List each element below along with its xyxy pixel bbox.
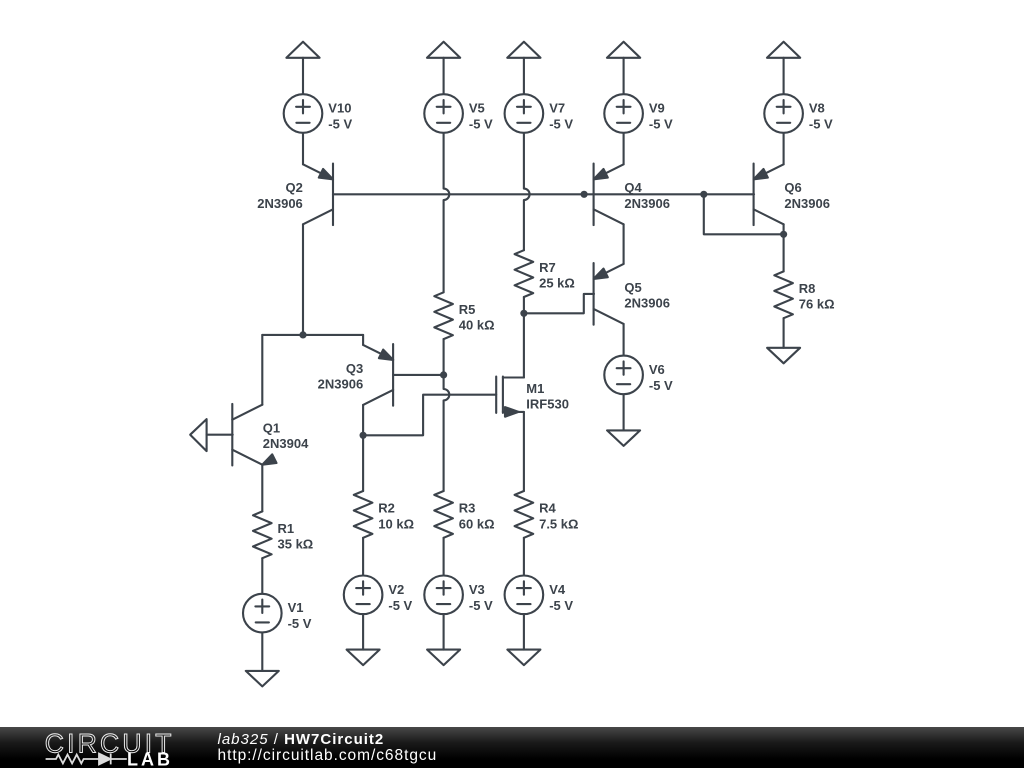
svg-text:R8: R8 [799,281,816,296]
wire Q3 collector down to R2 [362,405,364,491]
svg-text:40 kΩ: 40 kΩ [459,318,495,333]
voltage source V5 -5 V [424,94,463,133]
svg-text:-5 V: -5 V [649,117,673,132]
svg-text:10 kΩ: 10 kΩ [378,516,414,531]
footer title text [218,731,385,748]
label R8 [799,281,835,312]
transistor Q5 2N3906 [594,263,624,325]
svg-text:Q2: Q2 [285,180,302,195]
voltage source V7 -5 V [505,94,544,133]
label M1 [526,381,569,412]
svg-text:V2: V2 [388,582,404,597]
svg-text:Q5: Q5 [624,280,641,295]
svg-text:R2: R2 [378,501,395,516]
ground below R8 [767,348,800,364]
wire R5 to R3 (hop over gate wire) [444,339,450,491]
svg-text:-5 V: -5 V [469,117,493,132]
voltage source V3 -5 V [424,576,463,615]
voltage source V8 -5 V [764,94,803,133]
logo resistor + diode glyph [46,754,127,765]
node main wire at Q4 [581,191,588,198]
wire Q2 collector down [302,224,304,335]
ground below V3 [427,650,460,666]
voltage source V9 -5 V [604,94,643,133]
wire V7 down to R7 (hop over main wire) [524,133,530,250]
svg-text:IRF530: IRF530 [526,397,569,412]
label Q6 [784,180,830,211]
ground below V1 [246,671,279,687]
transistor Q3 2N3906 [363,344,393,406]
wire R to V2 [362,538,364,576]
resistor R5 40 k [434,292,453,339]
power flag above V5 [427,42,460,94]
wire V6 to ground [623,394,625,430]
transistor Q4 2N3906 [594,164,624,226]
CircuitLab logo wordmark [45,728,175,769]
wire R1 to V1 [261,558,263,593]
voltage source V6 -5 V [604,356,643,395]
wire feedback down-right to Q6 collector [704,194,784,234]
svg-text:R1: R1 [278,521,295,536]
label V1 [288,600,312,631]
ground below V4 [507,650,540,666]
svg-text:V1: V1 [288,600,304,615]
power flag above V10 [286,42,319,94]
node Q3 base junction [440,371,447,378]
svg-text:V7: V7 [549,101,565,116]
svg-text:-5 V: -5 V [469,598,493,613]
resistor R3 60 k [434,491,453,538]
svg-text:-5 V: -5 V [549,598,573,613]
resistor R7 25 k [515,250,534,297]
wire main bus Q2-Q4-Q6 bases [333,193,754,195]
wire Q6 collector down [783,224,785,271]
svg-text:V3: V3 [469,582,485,597]
svg-text:-5 V: -5 V [649,378,673,393]
wire port to Q1 base [207,434,233,436]
node gate feedback junction [360,432,367,439]
label V10 [328,101,352,132]
label Q4 [624,180,670,211]
svg-text:R5: R5 [459,302,476,317]
wire Q5 base jog [524,294,594,313]
resistor R4 7.5 k [515,491,534,538]
svg-text:V8: V8 [809,101,825,116]
voltage source V4 -5 V [505,576,544,615]
wire V1 to ground [261,633,263,671]
node Q6 collector junction [780,231,787,238]
ground below V2 [347,650,380,666]
node main wire feedback tap [700,191,707,198]
voltage source V1 -5 V [243,594,282,633]
node R7/M1/Q5 junction [520,310,527,317]
voltage source V10 -5 V [284,94,323,133]
wire Q3 emitter stub [362,335,364,345]
label R4 [539,501,578,532]
label V5 [469,101,493,132]
svg-text:25 kΩ: 25 kΩ [539,276,575,291]
label R1 [278,521,314,552]
wire R7 to M1 drain [523,297,525,378]
wire V8 to Q6 emitter [783,133,785,164]
wire V9 to Q4 emitter [623,133,625,164]
wire gate feedback to M1 [363,395,496,436]
power flag above V9 [607,42,640,94]
svg-text:R7: R7 [539,260,556,275]
label V3 [469,582,493,613]
wire horizontal Q1-Q2-Q3 [262,334,363,336]
label R2 [378,501,414,532]
wire M1 source to R4 [523,412,525,491]
power flag above V7 [507,42,540,94]
wire Q3 base [393,374,444,376]
label Q5 [624,280,670,311]
wire V3 to ground [443,614,445,649]
svg-text:Q3: Q3 [346,361,363,376]
voltage source V2 -5 V [344,576,383,615]
transistor Q1 2N3904 [232,404,276,466]
svg-text:2N3906: 2N3906 [318,376,364,391]
label V2 [388,582,412,613]
svg-text:-5 V: -5 V [288,616,312,631]
svg-text:Q1: Q1 [263,421,280,436]
wire Q4 collector to Q5 emitter [623,224,625,264]
wire V2 to ground [362,614,364,649]
svg-text:-5 V: -5 V [328,117,352,132]
svg-text:Q4: Q4 [624,180,642,195]
label V8 [809,101,833,132]
svg-text:76 kΩ: 76 kΩ [799,297,835,312]
label R5 [459,302,495,333]
footer bar [0,727,1024,768]
svg-text:V5: V5 [469,101,485,116]
label V4 [549,582,573,613]
wire V5 down to R5 (hop over main wire) [444,133,450,292]
label V9 [649,101,673,132]
ground below V6 [607,430,640,446]
wire Q5 collector to V6 [623,324,625,356]
wire down to Q1 collector [261,335,263,405]
svg-text:V9: V9 [649,101,665,116]
svg-text:2N3906: 2N3906 [784,196,830,211]
label R3 [459,501,495,532]
wire V10 to Q2 emitter [302,133,304,164]
transistor Q2 2N3906 [303,164,333,226]
svg-text:V6: V6 [649,362,665,377]
svg-text:2N3904: 2N3904 [263,436,309,451]
svg-text:-5 V: -5 V [549,117,573,132]
svg-text:2N3906: 2N3906 [624,196,670,211]
svg-text:R3: R3 [459,501,476,516]
svg-text:35 kΩ: 35 kΩ [278,537,314,552]
svg-text:-5 V: -5 V [388,598,412,613]
svg-text:M1: M1 [526,381,544,396]
power flag above V8 [767,42,800,94]
wire R8 to ground [783,318,785,348]
label Q2 [257,180,303,211]
label R7 [539,260,575,291]
svg-text:Q6: Q6 [784,180,801,195]
wire V4 to ground [523,614,525,649]
svg-text:V10: V10 [328,101,351,116]
wire Q1 emitter to R1 [261,465,263,512]
svg-text:7.5 kΩ: 7.5 kΩ [539,516,578,531]
svg-text:V4: V4 [549,582,566,597]
transistor Q6 2N3906 [754,164,784,226]
label V7 [549,101,573,132]
resistor R8 76 k [774,271,793,318]
label Q1 [263,421,309,452]
svg-text:LAB: LAB [127,750,173,768]
resistor R1 35 k [253,511,272,558]
svg-text:R4: R4 [539,501,556,516]
wire R to V3 [443,538,445,576]
svg-text:60 kΩ: 60 kΩ [459,516,495,531]
node Q2.C junction [299,331,306,338]
svg-text:2N3906: 2N3906 [257,196,303,211]
svg-text:2N3906: 2N3906 [624,295,670,310]
wire R to V4 [523,538,525,576]
label Q3 [318,361,364,392]
resistor R2 10 k [354,491,373,538]
input port at Q1 base [190,419,206,451]
mosfet M1 IRF530 [496,377,524,417]
label V6 [649,362,673,393]
svg-text:-5 V: -5 V [809,117,833,132]
